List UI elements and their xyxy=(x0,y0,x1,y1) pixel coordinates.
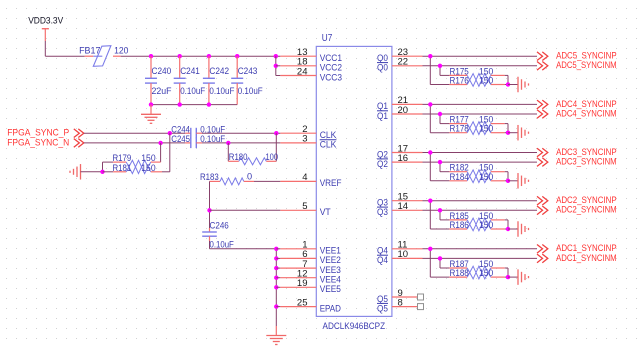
svg-text:R181: R181 xyxy=(113,163,132,173)
svg-text:C241: C241 xyxy=(180,66,200,76)
svg-text:R179: R179 xyxy=(113,153,132,163)
svg-text:R180: R180 xyxy=(229,152,248,162)
svg-text:VDD3.3V: VDD3.3V xyxy=(28,15,63,25)
svg-text:0: 0 xyxy=(247,172,252,182)
svg-text:R183: R183 xyxy=(200,172,219,182)
svg-text:ADC5_SYNCINP: ADC5_SYNCINP xyxy=(556,51,617,61)
svg-text:C246: C246 xyxy=(210,221,229,231)
svg-text:R184: R184 xyxy=(450,172,469,182)
svg-text:ADCLK946BCPZ: ADCLK946BCPZ xyxy=(323,321,386,332)
svg-text:14: 14 xyxy=(398,201,409,212)
svg-text:150: 150 xyxy=(141,163,155,173)
svg-text:25: 25 xyxy=(297,297,308,308)
svg-text:VEE5: VEE5 xyxy=(320,284,341,295)
svg-text:ADC1_SYNCINP: ADC1_SYNCINP xyxy=(556,243,617,253)
svg-text:R178: R178 xyxy=(450,124,469,134)
svg-text:ADC2_SYNCINM: ADC2_SYNCINM xyxy=(556,205,617,215)
svg-text:150: 150 xyxy=(479,124,493,134)
svg-text:C245: C245 xyxy=(171,134,190,144)
svg-text:22: 22 xyxy=(398,57,409,68)
svg-text:150: 150 xyxy=(479,268,493,278)
svg-text:ADC1_SYNCINM: ADC1_SYNCINM xyxy=(556,253,617,263)
svg-text:ADC5_SYNCINM: ADC5_SYNCINM xyxy=(556,60,617,70)
svg-text:VCC3: VCC3 xyxy=(320,72,342,83)
svg-text:0.10uF: 0.10uF xyxy=(209,86,234,96)
svg-text:4: 4 xyxy=(302,172,307,183)
svg-text:ADC4_SYNCINP: ADC4_SYNCINP xyxy=(556,99,617,109)
svg-text:150: 150 xyxy=(479,220,493,230)
svg-text:Q5: Q5 xyxy=(377,303,388,314)
svg-text:19: 19 xyxy=(297,278,308,289)
svg-text:150: 150 xyxy=(479,172,493,182)
svg-text:R186: R186 xyxy=(450,220,469,230)
svg-text:3: 3 xyxy=(302,134,307,145)
svg-text:R176: R176 xyxy=(450,76,469,86)
svg-text:20: 20 xyxy=(398,105,409,116)
svg-text:CLK: CLK xyxy=(320,140,337,151)
svg-text:22uF: 22uF xyxy=(152,86,172,96)
svg-text:0.10uF: 0.10uF xyxy=(180,86,205,96)
svg-text:0.10uF: 0.10uF xyxy=(238,86,263,96)
svg-text:5: 5 xyxy=(302,201,307,212)
svg-text:16: 16 xyxy=(398,153,409,164)
svg-text:150: 150 xyxy=(141,153,155,163)
svg-text:ADC3_SYNCINP: ADC3_SYNCINP xyxy=(556,147,617,157)
svg-text:C243: C243 xyxy=(238,66,258,76)
svg-text:C240: C240 xyxy=(152,66,172,76)
svg-text:R188: R188 xyxy=(450,268,469,278)
svg-text:Q2: Q2 xyxy=(377,159,388,170)
svg-text:0.10uF: 0.10uF xyxy=(210,239,235,249)
svg-text:ADC2_SYNCINP: ADC2_SYNCINP xyxy=(556,195,617,205)
svg-text:C242: C242 xyxy=(209,66,229,76)
svg-text:8: 8 xyxy=(398,297,403,308)
svg-text:C244: C244 xyxy=(171,124,190,134)
svg-text:FB17: FB17 xyxy=(79,45,100,55)
svg-text:FPGA_SYNC_P: FPGA_SYNC_P xyxy=(7,128,69,138)
svg-text:Q0: Q0 xyxy=(377,63,388,74)
svg-text:EPAD: EPAD xyxy=(320,303,341,314)
svg-text:FPGA_SYNC_N: FPGA_SYNC_N xyxy=(7,137,69,147)
svg-text:Q4: Q4 xyxy=(377,255,388,266)
svg-text:Q1: Q1 xyxy=(377,111,388,122)
svg-text:VREF: VREF xyxy=(320,178,342,189)
svg-text:Q3: Q3 xyxy=(377,207,388,218)
svg-text:24: 24 xyxy=(297,66,308,77)
svg-text:ADC3_SYNCINM: ADC3_SYNCINM xyxy=(556,157,617,167)
svg-text:150: 150 xyxy=(479,76,493,86)
svg-text:VT: VT xyxy=(320,207,331,218)
svg-text:10: 10 xyxy=(398,249,409,260)
svg-text:ADC4_SYNCINM: ADC4_SYNCINM xyxy=(556,108,617,118)
svg-text:120: 120 xyxy=(114,45,128,55)
svg-text:U7: U7 xyxy=(322,33,333,44)
svg-text:100: 100 xyxy=(266,152,279,162)
